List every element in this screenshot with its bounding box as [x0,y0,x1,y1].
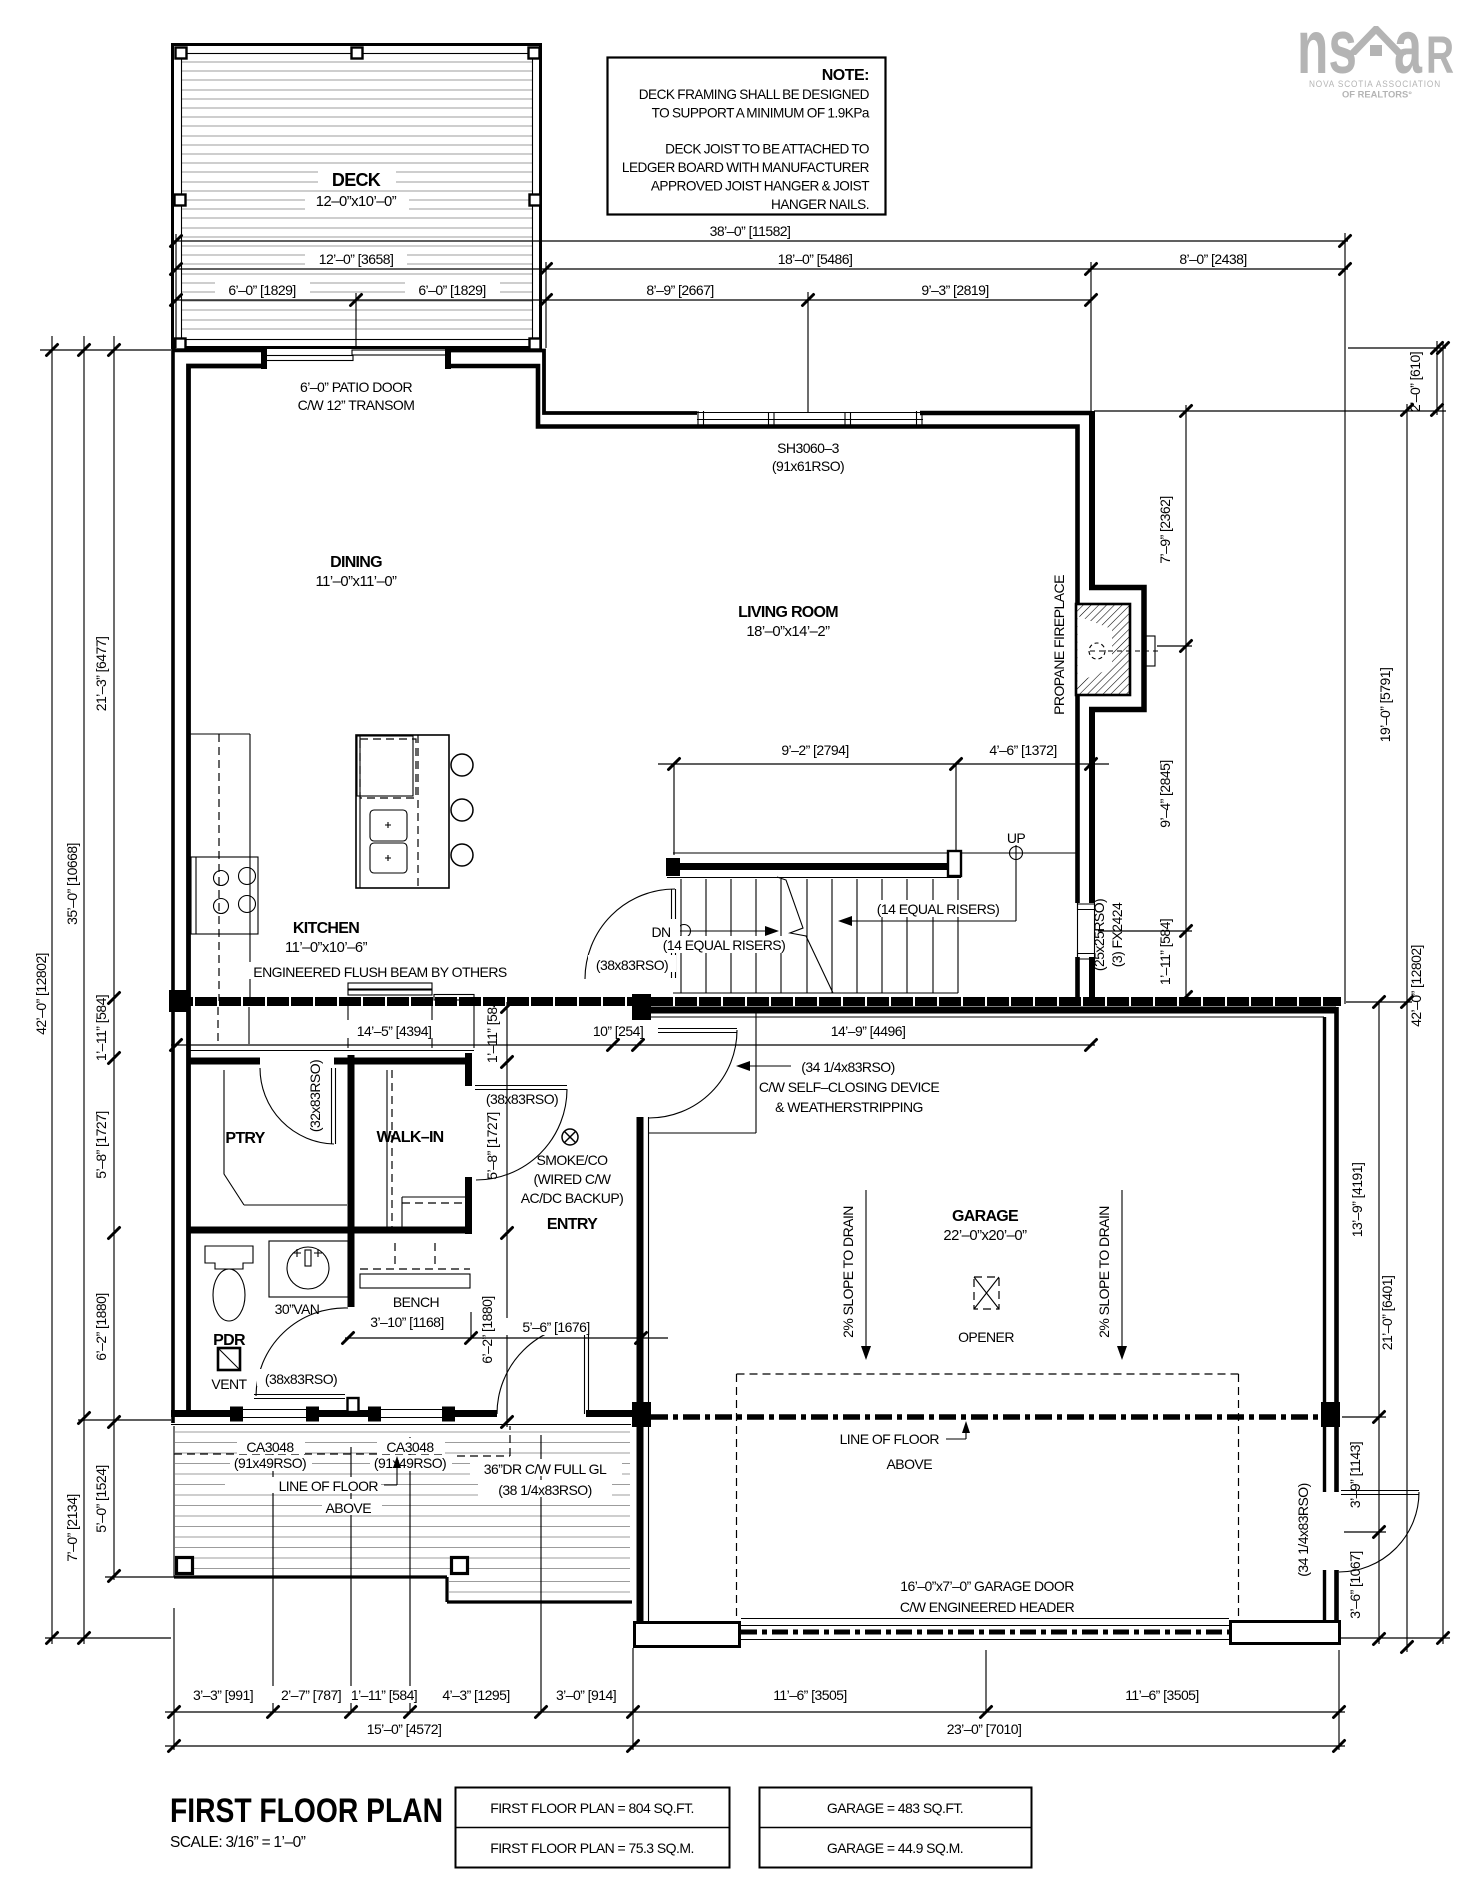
svg-text:C/W 12” TRANSOM: C/W 12” TRANSOM [298,397,415,413]
svg-text:11’–0”x11’–0”: 11’–0”x11’–0” [316,574,398,590]
svg-text:4’–6” [1372]: 4’–6” [1372] [989,742,1056,758]
post at garage east wall floor line [1321,1402,1340,1427]
svg-text:42’–0” [12802]: 42’–0” [12802] [1408,945,1424,1027]
svg-text:1’–11” [584]: 1’–11” [584] [351,1687,417,1703]
garage steps landing [649,1013,756,1133]
svg-text:SCALE: 3/16” = 1’–0”: SCALE: 3/16” = 1’–0” [170,1834,306,1851]
svg-text:DN: DN [651,924,670,940]
svg-text:22’–0”x20’–0”: 22’–0”x20’–0” [943,1228,1027,1244]
front wall window jambs [230,1407,455,1422]
island stools [451,754,473,776]
entry east wall [637,1117,644,1648]
range [191,857,258,934]
svg-text:APPROVED JOIST HANGER & JO: APPROVED JOIST HANGER & JOIST [651,179,869,194]
svg-text:NOTE:: NOTE: [822,67,869,84]
left dimension column [45,336,174,1644]
floor above dashed outline in garage [737,1374,1239,1618]
svg-text:(91x49RSO): (91x49RSO) [234,1455,306,1471]
svg-text:5’–8” [1727]: 5’–8” [1727] [93,1111,109,1178]
svg-text:6’–0” PATIO DOOR: 6’–0” PATIO DOOR [300,379,412,395]
svg-text:10” [254]: 10” [254] [593,1023,643,1039]
fireplace bump-out wall [1089,588,1144,710]
svg-text:15’–0” [4572]: 15’–0” [4572] [367,1721,442,1737]
opener [974,1277,999,1309]
svg-text:18’–0” [5486]: 18’–0” [5486] [778,251,853,267]
svg-text:8’–9” [2667]: 8’–9” [2667] [646,282,713,298]
garage door jamb wall east [1231,1622,1340,1644]
svg-text:WALK–IN: WALK–IN [376,1129,443,1146]
smoke/co symbol [562,1129,578,1145]
svg-text:UP: UP [1007,830,1026,846]
svg-text:FIRST FLOOR PLAN: FIRST FLOOR PLAN [170,1792,443,1830]
top wall outer face [173,351,262,1424]
patio door jambs [261,348,267,369]
svg-text:9’–4” [2845]: 9’–4” [2845] [1157,760,1173,827]
svg-text:(34 1/4x83RSO): (34 1/4x83RSO) [801,1059,894,1075]
pdr door label [257,1369,345,1386]
deck label [318,170,396,190]
pdr door swing [256,1308,348,1396]
pantry door swing [260,1068,334,1144]
area table garage [760,1788,1032,1868]
post at beam center [632,994,651,1021]
svg-text:(38x83RSO): (38x83RSO) [486,1091,558,1107]
post at entry wall floor line [632,1402,651,1427]
interior dim column x=507 [506,1002,508,1427]
garage door [741,1619,1229,1640]
walk-in east wall stub [465,1053,472,1234]
flush beam outline [348,983,432,989]
pdr wall stub at front wall [348,1398,359,1412]
vent [218,1348,240,1370]
stair break line [777,877,833,993]
svg-text:(14 EQUAL RISERS): (14 EQUAL RISERS) [663,937,785,953]
svg-text:OPENER: OPENER [958,1329,1014,1345]
island sink [370,810,407,841]
stair wall [667,863,956,870]
svg-text:5’–0” [1524]: 5’–0” [1524] [93,1465,109,1532]
svg-text:OF REALTORS°: OF REALTORS° [1342,90,1412,100]
svg-text:21’–3” [6477]: 21’–3” [6477] [93,637,109,712]
svg-text:PTRY: PTRY [225,1130,265,1147]
svg-text:14’–9” [4496]: 14’–9” [4496] [831,1023,906,1039]
front entry door swing [497,1324,587,1414]
svg-text:PDR: PDR [213,1332,246,1349]
svg-text:VENT: VENT [211,1376,247,1392]
svg-text:TO SUPPORT A MINIMUM OF 1: TO SUPPORT A MINIMUM OF 1.9KPa [652,106,870,121]
kitchen lines below beam [248,1007,250,1044]
svg-text:(25x25RSO): (25x25RSO) [1091,899,1107,971]
interior dim row 3'-10"/5'-6" [345,1312,668,1338]
svg-text:16’–0”x7’–0” GARAGE DOOR: 16’–0”x7’–0” GARAGE DOOR [900,1578,1074,1594]
svg-text:ENGINEERED FLUSH BEAM BY O: ENGINEERED FLUSH BEAM BY OTHERS [253,964,507,980]
svg-text:DINING: DINING [330,554,382,571]
interior dim row 9'-2"/4'-6" [658,764,1109,855]
svg-text:8’–0” [2438]: 8’–0” [2438] [1179,251,1246,267]
svg-text:LIVING ROOM: LIVING ROOM [738,604,838,621]
interior dim row 14'-5"/10"/14'-9" [171,1044,1095,1046]
UP marker [1010,847,1023,860]
flush beam across house [171,997,1341,1006]
svg-text:13’–9” [4191]: 13’–9” [4191] [1349,1163,1365,1238]
stair door leaf [672,889,676,978]
window (3) FX2424 [1077,903,1095,960]
svg-text:(3) FX2424: (3) FX2424 [1109,902,1125,967]
fireplace vent [1146,636,1155,666]
svg-text:(38 1/4x83RSO): (38 1/4x83RSO) [498,1482,591,1498]
deck rim [173,45,541,348]
svg-text:6’–0” [1829]: 6’–0” [1829] [418,282,485,298]
18ft wall outer face east of window [920,411,1092,416]
ca3048 labels [237,1438,305,1454]
porch posts [177,1558,193,1574]
svg-text:(34 1/4x83RSO): (34 1/4x83RSO) [1295,1483,1311,1576]
garage door jamb wall west [635,1623,740,1647]
svg-text:23’–0” [7010]: 23’–0” [7010] [947,1721,1022,1737]
svg-text:(38x83RSO): (38x83RSO) [596,957,668,973]
walk-in rod and shelf [386,1070,388,1228]
svg-text:ABOVE: ABOVE [887,1456,933,1472]
kitchen counter [190,734,250,1001]
deck posts [175,48,541,350]
svg-text:AC/DC BACKUP): AC/DC BACKUP) [521,1190,624,1206]
stair landing edge [673,852,1077,854]
svg-text:DECK: DECK [332,170,381,190]
svg-text:(WIRED C/W: (WIRED C/W [534,1171,612,1187]
svg-text:(32x83RSO): (32x83RSO) [307,1060,323,1132]
svg-text:1’–11” [584]: 1’–11” [584] [484,997,500,1063]
deck boards [182,62,532,329]
equal risers upper [865,900,1011,917]
right dimension column [1098,341,1450,1652]
svg-text:36”DR C/W FULL GL: 36”DR C/W FULL GL [484,1461,607,1477]
svg-text:14’–5” [4394]: 14’–5” [4394] [357,1023,432,1039]
post at beam west end [169,990,189,1012]
porch south edge [174,1577,632,1602]
living room east wall below fireplace [1089,709,1095,1000]
svg-text:LINE OF FLOOR: LINE OF FLOOR [840,1431,940,1447]
line of floor above label (porch) [225,1477,381,1493]
svg-text:42’–0” [12802]: 42’–0” [12802] [33,953,49,1035]
svg-text:C/W SELF–CLOSING DEVICE: C/W SELF–CLOSING DEVICE [759,1079,939,1095]
svg-text:2% SLOPE TO DRAIN: 2% SLOPE TO DRAIN [840,1206,856,1338]
garage-entry door leaf [649,1029,737,1033]
svg-text:FIRST FLOOR PLAN = 75.3 S: FIRST FLOOR PLAN = 75.3 SQ.M. [490,1840,694,1856]
svg-text:11’–6” [3505]: 11’–6” [3505] [773,1687,847,1703]
svg-text:R: R [1426,26,1454,85]
svg-text:GARAGE = 483 SQ.FT.: GARAGE = 483 SQ.FT. [827,1800,963,1816]
front door label [470,1459,622,1476]
bench label [385,1293,447,1309]
pantry counter [224,1070,347,1205]
equal risers lower [651,936,797,953]
garage north wall [640,1007,1336,1014]
walk-in door swing [476,1089,567,1180]
svg-text:3’–6” [1067]: 3’–6” [1067] [1347,1551,1363,1618]
porch west edge [173,1426,175,1577]
svg-text:HANGER NAILS.: HANGER NAILS. [771,197,869,212]
kitchen island [356,735,449,888]
garage man-door swing [1339,1492,1419,1572]
svg-text:& WEATHERSTRIPPING: & WEATHERSTRIPPING [775,1099,923,1115]
svg-text:BENCH: BENCH [393,1294,439,1310]
svg-text:18’–0”x14’–2”: 18’–0”x14’–2” [746,624,830,640]
svg-text:3’–0” [914]: 3’–0” [914] [556,1687,616,1703]
svg-text:CA3048: CA3048 [246,1439,294,1455]
line of floor above (garage, heavy dash-dot) [651,1414,1322,1420]
area table first floor [456,1788,730,1868]
pantry/walk-in divider wall [348,1055,355,1232]
line of floor above (porch, dashed) [174,1426,510,1456]
porch deck boards [175,1432,630,1592]
svg-text:5’–6” [1676]: 5’–6” [1676] [522,1319,589,1335]
svg-text:9’–3” [2819]: 9’–3” [2819] [921,282,988,298]
svg-text:(91x49RSO): (91x49RSO) [374,1455,446,1471]
svg-text:38’–0” [11582]: 38’–0” [11582] [710,223,791,239]
garage east wall [1334,1007,1339,1622]
svg-text:ABOVE: ABOVE [326,1500,372,1516]
front wall of house [171,1410,635,1417]
svg-text:ns: ns [1297,5,1357,90]
stair door swing [585,889,675,979]
garage door label [848,1576,1126,1593]
note box [608,58,886,215]
pdr east wall [348,1230,355,1307]
svg-text:LEDGER BOARD WITH MANUFACTU: LEDGER BOARD WITH MANUFACTURER [622,160,870,175]
svg-text:7’–0” [2134]: 7’–0” [2134] [64,1494,80,1561]
svg-text:6’–0” [1829]: 6’–0” [1829] [228,282,295,298]
step + 18ft wall inner face [450,366,1078,903]
top dimension row 38'-0" [40,233,1446,1004]
svg-text:(38x83RSO): (38x83RSO) [265,1371,337,1387]
svg-text:2’–0” [610]: 2’–0” [610] [1407,352,1423,412]
svg-text:4’–3” [1295]: 4’–3” [1295] [442,1687,509,1703]
svg-text:7’–9” [2362]: 7’–9” [2362] [1157,496,1173,563]
window CA3048 west [243,1410,306,1418]
svg-text:KITCHEN: KITCHEN [293,920,359,937]
svg-text:21’–0” [6401]: 21’–0” [6401] [1379,1276,1395,1351]
svg-text:6’–2” [1880]: 6’–2” [1880] [93,1293,109,1360]
pantry door leaf [332,1068,336,1144]
svg-text:19’–0” [5791]: 19’–0” [5791] [1377,668,1393,743]
flush beam label [248,962,514,979]
window CA3048 east [381,1410,442,1418]
svg-text:3’–10” [1168]: 3’–10” [1168] [370,1314,444,1330]
stair treads [681,879,958,993]
svg-text:LINE OF FLOOR: LINE OF FLOOR [279,1478,379,1494]
svg-text:12’–0” [3658]: 12’–0” [3658] [319,251,394,267]
cabinets under beam [348,1000,474,1048]
svg-text:GARAGE: GARAGE [952,1208,1019,1225]
svg-text:DECK FRAMING SHALL BE DESI: DECK FRAMING SHALL BE DESIGNED [639,87,870,102]
patio door panels [262,356,353,361]
top wall + left wall inner face [189,366,263,1410]
svg-text:CA3048: CA3048 [386,1439,434,1455]
svg-text:5’–8” [1727]: 5’–8” [1727] [484,1112,500,1179]
window SH3060-3 [697,411,923,427]
svg-text:(14 EQUAL RISERS): (14 EQUAL RISERS) [877,901,999,917]
pdr door leaf [254,1395,345,1399]
svg-text:9’–2” [2794]: 9’–2” [2794] [781,742,848,758]
svg-text:SH3060–3: SH3060–3 [777,440,840,456]
stair door label [588,955,676,972]
svg-text:FIRST FLOOR PLAN = 804 SQ: FIRST FLOOR PLAN = 804 SQ.FT. [490,1800,694,1816]
svg-text:PROPANE FIREPLACE: PROPANE FIREPLACE [1051,575,1067,715]
bottom dimension rows [165,1435,1345,1750]
svg-text:11’–6” [3505]: 11’–6” [3505] [1125,1687,1199,1703]
svg-text:35’–0” [10668]: 35’–0” [10668] [64,843,80,925]
svg-text:6’–2” [1880]: 6’–2” [1880] [479,1296,495,1363]
svg-text:11’–0”x10’–6”: 11’–0”x10’–6” [285,940,368,956]
NSAR logo [1297,5,1454,100]
propane fireplace firebox [1076,604,1130,695]
walk-in door leaf [475,1086,567,1090]
svg-text:SMOKE/CO: SMOKE/CO [536,1152,608,1168]
svg-text:1’–11” [584]: 1’–11” [584] [93,995,109,1061]
pantry/walk-in south wall [188,1227,472,1234]
DN marker [678,925,691,938]
slope arrow east [1121,1190,1123,1350]
svg-text:2% SLOPE TO DRAIN: 2% SLOPE TO DRAIN [1096,1206,1112,1338]
svg-text:DECK JOIST TO BE ATTACHED: DECK JOIST TO BE ATTACHED TO [665,142,869,157]
vanity [269,1241,348,1297]
svg-text:3’–3” [991]: 3’–3” [991] [193,1687,253,1703]
svg-text:GARAGE = 44.9 SQ.M.: GARAGE = 44.9 SQ.M. [827,1840,963,1856]
svg-text:C/W ENGINEERED HEADER: C/W ENGINEERED HEADER [900,1599,1075,1615]
toilet [205,1246,253,1269]
pantry north wall [188,1050,474,1052]
svg-text:NOVA SCOTIA ASSOCIATION: NOVA SCOTIA ASSOCIATION [1309,79,1441,90]
svg-text:(91x61RSO): (91x61RSO) [772,458,844,474]
svg-text:30”VAN: 30”VAN [275,1301,320,1317]
garage-entry door swing [649,1030,737,1118]
svg-text:ENTRY: ENTRY [547,1216,598,1233]
svg-text:1’–11” [584]: 1’–11” [584] [1157,919,1173,985]
top wall + step + 18ft wall outer face [450,351,697,414]
svg-text:12–0”x10’–0”: 12–0”x10’–0” [316,194,397,210]
bench [360,1243,470,1269]
svg-text:2’–7” [787]: 2’–7” [787] [281,1687,341,1703]
slope arrow west [865,1190,867,1350]
front entry door leaf [585,1324,589,1414]
svg-text:3’–9” [1143]: 3’–9” [1143] [1347,1442,1363,1508]
garage man-door leaf [1341,1491,1419,1495]
